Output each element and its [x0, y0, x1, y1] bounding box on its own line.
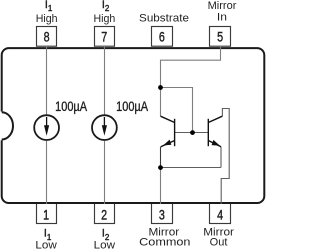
- svg-text:Out: Out: [210, 236, 228, 248]
- svg-text:6: 6: [159, 29, 165, 45]
- svg-text:7: 7: [101, 29, 107, 45]
- svg-text:High: High: [36, 13, 58, 25]
- svg-text:Low: Low: [35, 240, 57, 250]
- svg-text:4: 4: [217, 207, 223, 223]
- svg-text:100µA: 100µA: [116, 99, 149, 114]
- svg-text:3: 3: [159, 207, 165, 223]
- svg-text:100µA: 100µA: [55, 99, 88, 114]
- svg-text:I2: I2: [102, 0, 110, 13]
- svg-text:8: 8: [44, 29, 50, 45]
- svg-text:5: 5: [217, 29, 223, 45]
- svg-text:In: In: [217, 12, 227, 23]
- svg-text:Mirror: Mirror: [208, 0, 237, 12]
- svg-text:1: 1: [43, 207, 49, 223]
- svg-text:High: High: [94, 13, 116, 25]
- svg-text:I1: I1: [45, 0, 53, 13]
- svg-text:Substrate: Substrate: [139, 13, 189, 25]
- svg-text:Low: Low: [94, 240, 116, 250]
- svg-text:2: 2: [101, 207, 107, 223]
- svg-text:Common: Common: [139, 235, 190, 248]
